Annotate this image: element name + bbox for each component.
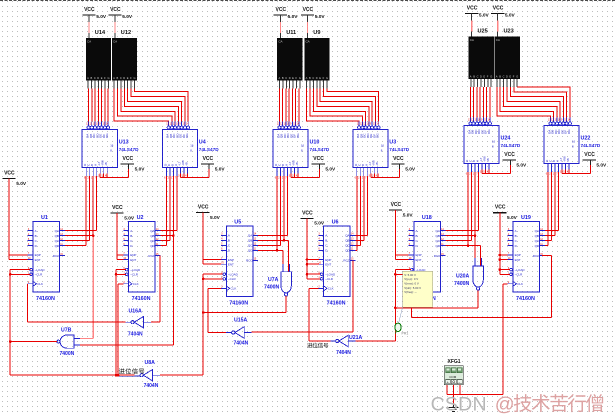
svg-text:U5: U5 [234,220,241,226]
svg-text:U12: U12 [121,30,131,36]
counter U18 74160N [409,215,446,302]
7-seg display U12 [112,30,137,89]
wire U18.QC to U24 [446,172,472,241]
svg-text:74LS47D: 74LS47D [199,147,219,152]
power VCC U23_pwr [491,6,516,19]
svg-text:7400N: 7400N [264,285,280,291]
svg-text:74160N: 74160N [516,296,535,302]
svg-text:5.0V: 5.0V [516,162,527,168]
counter U1 74160N [28,215,65,302]
svg-text:VCC: VCC [276,7,287,13]
wire VCC to U3 LT/RBI/BI pins [371,164,400,178]
svg-text:5.0V: 5.0V [325,166,336,172]
function generator XFG1 [444,359,463,385]
decoder U10 74LS47D [273,122,330,180]
svg-text:U4: U4 [199,140,206,146]
svg-text:PR1: PR1 [402,332,409,336]
wire XFG1 COM to ground [453,385,455,406]
wire U19.QA to U22 [545,172,559,231]
svg-text:U8A: U8A [145,360,156,366]
svg-text:7404N: 7404N [234,341,249,347]
power VCC U12_pwr [108,7,133,20]
wire VCC to U22 LT/RBI/BI pins [562,160,591,174]
net U16A out to U1.CLK [27,284,125,322]
svg-text:5.0V: 5.0V [596,162,607,168]
power VCC U3_pwr [391,156,416,172]
decoder U24 74LS47D [464,118,521,176]
wire U5.QB to U10 [258,176,289,272]
svg-text:74LS47D: 74LS47D [119,147,139,152]
power VCC U25_pwr [465,6,490,19]
watermark CSDN [431,394,604,416]
svg-text:VCC: VCC [393,156,404,162]
7-seg display U25 [469,29,494,88]
inverter U21A 7404N [330,335,362,356]
svg-text:U21A: U21A [349,335,363,341]
wire VCC to U23 [497,14,499,37]
svg-text:CSDN: CSDN [431,394,487,416]
wire U1.QB riser down to U7B input (highlighted pink) [79,234,94,338]
power VCC U1_pwr [2,171,27,260]
svg-text:74160N: 74160N [132,296,151,302]
net label 进位信号 (left, at U8A) [119,368,145,374]
svg-text:U18: U18 [422,215,432,221]
wire U19.QD to U22 [545,172,548,246]
wire U5.QD to U10 [258,176,283,272]
svg-text:5.0V: 5.0V [479,13,490,19]
svg-text:U23: U23 [504,29,514,35]
svg-text:U16A: U16A [129,309,143,315]
svg-text:U20A: U20A [456,274,470,280]
inverter U8A 7404N [135,360,161,389]
net U2 ~LOAD/~CLR from carry [115,270,126,377]
wire U18.QD to U24 [446,172,481,266]
wire bundle U12 to U4 (staircase) [114,89,188,122]
power VCC U13_pwr [121,156,146,172]
net U2.CLK from carry [117,284,123,377]
svg-text:5.0V: 5.0V [314,221,325,227]
svg-text:VCC: VCC [313,156,324,162]
net U2.RCO to U16A in [151,256,160,323]
power VCC U4_pwr [201,156,226,172]
svg-text:VCC: VCC [84,7,95,13]
svg-text:U6: U6 [332,220,339,226]
svg-text:U14: U14 [95,30,106,36]
wire U18.QA to U24 [446,172,479,231]
net U19 reset: RCO to ~LOAD/~CLR via lower run [412,256,552,318]
wire U6.QA to U3 [355,176,367,235]
svg-text:V(freq): --: V(freq): -- [404,290,416,294]
wire U6.QB to U3 [355,176,363,240]
counter U2 74160N [123,215,160,302]
counter U6 74160N [318,220,355,307]
svg-text:VCC: VCC [493,6,504,12]
counter U19 74160N [508,215,545,302]
wire bundle U14 to U13 (7 segment lines) [89,89,109,122]
svg-text:COM: COM [449,375,457,379]
wire U1.QC to U13 [65,176,90,241]
wire VCC to U6 ENP/ENT/LOAD/CLR [306,258,321,279]
sheet border top (dashed) [0,0,616,2]
wire U19.QC to U22 [545,172,552,241]
decoder U3 74LS47D [353,122,410,180]
svg-text:74160N: 74160N [327,301,346,307]
inverter U15A 7404N [226,318,252,347]
wire VCC to U19 ENP/ENT/LOAD/CLR [499,254,511,275]
wire VCC to U18 ENP/ENT [396,255,409,260]
svg-text:U15A: U15A [234,318,248,324]
svg-text:74LS47D: 74LS47D [389,147,409,152]
svg-text:5.0V: 5.0V [505,13,516,19]
svg-text:VCC: VCC [584,152,595,158]
svg-text:5.0V: 5.0V [210,215,221,221]
svg-text:U2: U2 [137,215,144,221]
svg-text:VCC: VCC [198,205,209,211]
svg-text:5.0V: 5.0V [124,215,135,221]
svg-text:7404N: 7404N [144,383,159,389]
svg-text:U7B: U7B [61,328,72,334]
svg-text:74160N: 74160N [229,301,248,307]
svg-text:U25: U25 [478,29,488,35]
counter U5 74160N [221,220,258,307]
svg-text:V: 5.00 V: V: 5.00 V [404,273,416,277]
svg-text:5.0V: 5.0V [16,181,27,187]
net U6.RCO to U15A in [252,260,353,332]
svg-text:U11: U11 [286,30,296,36]
power VCC U22_pwr [583,152,608,168]
wire VCC to U5 ENP/ENT [203,260,221,265]
power VCC U10_pwr [312,156,337,172]
net label underline 进位信号 (left) [118,375,141,377]
svg-text:VCC: VCC [302,210,313,216]
svg-text:VCC: VCC [112,205,123,211]
svg-text:7400N: 7400N [60,351,75,357]
decoder U13 74LS47D [82,122,139,180]
wire VCC to U2 ENP/ENT [117,255,123,260]
svg-text:U13: U13 [119,140,129,146]
wire VCC to U1 ENP/ENT [9,255,28,260]
svg-text:7404N: 7404N [128,332,143,338]
wire bundle U11 to U10 (7 segment lines) [279,89,299,122]
svg-text:5.0V: 5.0V [288,14,299,20]
net U21A out to U6.CLK [309,288,331,341]
wire U19.QB to U22 [545,172,555,236]
svg-text:7400N: 7400N [454,281,470,287]
power VCC U6_pwr [300,210,325,279]
net U15A out to U5.CLK [208,288,226,332]
power VCC U5_pwr [196,205,221,265]
wire VCC to U10 LT/RBI/BI pins [291,164,320,178]
wire VCC to U24 LT/RBI/BI pins [482,160,511,174]
power VCC U14_pwr [82,7,107,20]
net XFG1 to U19.CLK [447,284,508,395]
wire VCC to U12 [114,15,116,38]
svg-text:5.0V: 5.0V [507,215,518,221]
wire U2.QB riser down to U7B input2 [79,234,174,345]
svg-text:74LS47D: 74LS47D [581,143,601,148]
wire U2.QD to U4 [160,176,166,246]
svg-text:74LS47D: 74LS47D [501,143,521,148]
svg-text:VCC: VCC [203,156,214,162]
svg-text:V(rms): 0 V: V(rms): 0 V [404,282,419,286]
nand gate U7B 7400N (mirrored) [0,0,80,357]
svg-text:U9: U9 [313,30,320,36]
svg-text:VCC: VCC [495,205,506,211]
svg-text:XFG1: XFG1 [448,359,461,365]
wire U2.QB to U4 [160,176,173,236]
wire VCC to U11 [279,15,281,38]
svg-text:5.0V: 5.0V [315,14,326,20]
svg-text:U1: U1 [41,215,48,221]
wire U18.QB to U24 [446,172,477,266]
svg-text:@: @ [495,394,515,416]
power VCC U18_pwr [389,202,414,260]
7-seg display U11 [277,30,302,89]
net label 进位信号 (middle, at U21A) [307,343,328,348]
wire U5.QA to U10 [258,176,287,235]
7-seg display U14 [86,30,111,89]
wire U1.QB to U13 [65,176,93,236]
wire U6.QC to U3 [355,176,360,245]
net U5 reset: U7A out / U5 ~LOAD ~CLR / U8A in [160,274,286,375]
7-seg display U9 [304,30,329,89]
wire VCC to U13 LT/RBI/BI pins [100,164,129,178]
svg-text:U3: U3 [389,140,396,146]
ground symbol below XFG1 [449,405,459,411]
wire VCC to U25 [471,14,473,37]
decoder U4 74LS47D [162,122,219,180]
wire U2.QC to U4 [160,176,169,241]
svg-text:U22: U22 [581,136,591,142]
svg-text:5.0V: 5.0V [215,166,226,172]
svg-text:74160N: 74160N [36,296,55,302]
net U18 reset: U20A out / U18 ~LOAD ~CLR / U21A in / probe [356,270,479,341]
power VCC U2_pwr [110,205,135,260]
svg-text:5.0V: 5.0V [96,14,107,20]
svg-text:7404N: 7404N [336,350,351,356]
svg-text:5.0V: 5.0V [403,212,414,218]
wire bundle U25 to U24 (7 segment lines) [470,87,490,118]
measurement probe PR1 [395,307,409,335]
net U1 reset: U7B out / U1 ~LOAD ~CLR / carry line [9,270,135,376]
svg-text:VCC: VCC [123,156,134,162]
wire bundle U9 to U3 (staircase) [307,89,379,122]
power VCC U11_pwr [274,7,299,20]
wire U5.QC to U10 [258,176,280,245]
svg-text:VCC: VCC [4,171,15,177]
power VCC U24_pwr [503,152,528,168]
nand gate U7A 7400N (vertical) [264,264,291,296]
power VCC U9_pwr [301,7,326,20]
svg-text:5.0V: 5.0V [405,166,416,172]
svg-text:VCC: VCC [504,152,515,158]
svg-text:U19: U19 [521,215,531,221]
svg-text:U7A: U7A [268,277,279,283]
svg-text:VCC: VCC [303,7,314,13]
decoder U22 74LS47D [544,118,601,176]
7-seg display U23 [495,29,520,88]
wire U1.QD to U13 [65,176,86,246]
power VCC U19_pwr [493,205,518,275]
nand gate U20A 7400N (vertical) [454,258,483,290]
svg-text:5.0V: 5.0V [135,166,146,172]
svg-text:VCC: VCC [467,6,478,12]
svg-text:U10: U10 [310,140,320,146]
wire VCC to U9 [307,15,309,38]
wire bundle U23 to U22 (staircase) [497,87,570,118]
svg-text:+: + [447,380,449,384]
wire U2.QA to U4 [160,176,176,231]
wire VCC to U4 LT/RBI/BI pins [180,164,209,178]
wire U1.QA to U13 [65,176,97,231]
wire VCC to U14 [88,15,90,38]
svg-text:VCC: VCC [391,202,402,208]
probe tooltip (yellow measurement box) [403,271,433,307]
svg-text:VCC: VCC [110,7,121,13]
inverter U16A 7404N [126,309,152,338]
svg-text:74LS47D: 74LS47D [310,147,330,152]
svg-text:5.0V: 5.0V [122,14,133,20]
wire U6.QD to U3 [355,176,356,250]
svg-text:U24: U24 [501,136,511,142]
